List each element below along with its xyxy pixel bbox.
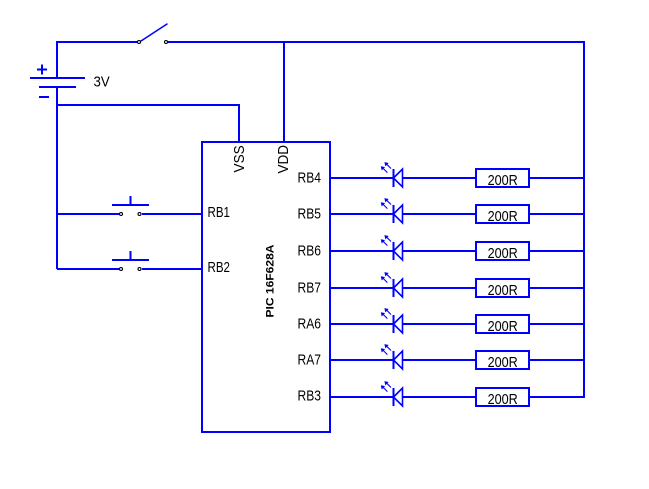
wire R5 to rail	[529, 323, 584, 325]
LED D5	[381, 308, 403, 333]
svg-text:RB6: RB6	[298, 244, 322, 260]
wire RB1 right	[142, 213, 202, 215]
LED D7	[381, 381, 403, 406]
pushbutton SW1 (RB1)	[112, 196, 149, 216]
wire D5 to R5	[403, 323, 476, 325]
svg-text:200R: 200R	[488, 173, 518, 189]
wire D3 to R3	[403, 250, 476, 252]
wire D2 to R2	[403, 213, 476, 215]
svg-text:200R: 200R	[488, 209, 518, 225]
wire D1 to R1	[403, 177, 476, 179]
resistor R3	[476, 242, 529, 260]
wire R6 to rail	[529, 359, 584, 361]
svg-text:RB7: RB7	[298, 281, 322, 297]
svg-text:RB4: RB4	[298, 171, 322, 187]
LED D3	[381, 235, 403, 260]
wire switch to right rail	[168, 41, 585, 43]
wire D7 to R7	[403, 396, 476, 398]
wire D6 to R6	[403, 359, 476, 361]
svg-text:200R: 200R	[488, 319, 518, 335]
wire R3 to rail	[529, 250, 584, 252]
wire D4 to R4	[403, 287, 476, 289]
LED D1	[381, 162, 403, 187]
wire RA6 pin	[330, 323, 393, 325]
wire battery negative rail	[56, 87, 58, 269]
svg-text:3V: 3V	[94, 75, 110, 91]
wire RB5 pin	[330, 213, 393, 215]
svg-text:RB2: RB2	[208, 260, 231, 276]
svg-text:RB1: RB1	[208, 205, 231, 221]
right supply rail	[583, 41, 585, 398]
svg-text:200R: 200R	[488, 355, 518, 371]
wire RB2 right	[142, 268, 202, 270]
resistor R1	[476, 169, 529, 187]
wire VDD drop	[283, 42, 285, 142]
svg-text:PIC 16F628A: PIC 16F628A	[264, 244, 276, 317]
pushbutton SW2 (RB2)	[112, 251, 149, 271]
wire RB6 pin	[330, 250, 393, 252]
battery BT1	[30, 65, 85, 98]
resistor R2	[476, 205, 529, 223]
LED D4	[381, 272, 403, 297]
svg-text:RB3: RB3	[298, 389, 322, 405]
svg-text:RA7: RA7	[298, 353, 322, 369]
wire R1 to rail	[529, 177, 584, 179]
LED D6	[381, 344, 403, 369]
wire battery positive to switch	[57, 42, 138, 78]
resistor R7	[476, 388, 529, 406]
wire RB1 left	[57, 213, 119, 215]
svg-text:RB5: RB5	[298, 207, 322, 223]
LED D2	[381, 198, 403, 223]
svg-text:200R: 200R	[488, 283, 518, 299]
svg-text:RA6: RA6	[298, 317, 322, 333]
svg-text:200R: 200R	[488, 392, 518, 408]
resistor R4	[476, 279, 529, 297]
svg-text:200R: 200R	[488, 246, 518, 262]
wire R2 to rail	[529, 213, 584, 215]
wire RB2 left	[57, 268, 119, 270]
wire RB3 pin	[330, 396, 393, 398]
switch S1	[138, 24, 168, 44]
wire R7 to rail	[529, 396, 584, 398]
wire RB4 pin	[330, 177, 393, 179]
resistor R6	[476, 351, 529, 369]
wire negative to VSS	[57, 105, 239, 142]
wire RA7 pin	[330, 359, 393, 361]
wire RB7 pin	[330, 287, 393, 289]
svg-text:VDD: VDD	[276, 145, 292, 174]
svg-text:VSS: VSS	[232, 145, 248, 172]
resistor R5	[476, 315, 529, 333]
wire R4 to rail	[529, 287, 584, 289]
IC U1 PIC 16F628A body	[202, 142, 330, 432]
